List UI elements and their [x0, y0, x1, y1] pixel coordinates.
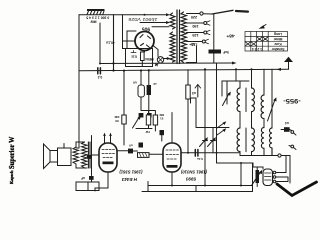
- resistor R1: [141, 52, 145, 61]
- wire vertical x113: [113, 15, 115, 71]
- svg-text:905: 905: [142, 25, 151, 31]
- svg-text:uF: uF: [153, 82, 157, 86]
- svg-text:5993: 5993: [185, 177, 196, 182]
- tube U1 anode lead: [153, 46, 158, 57]
- mains switch output: [236, 10, 248, 13]
- wire transformer bottom tap: [187, 46, 197, 63]
- tap 150 wire: [187, 22, 204, 24]
- transformer T1 core: [177, 10, 180, 64]
- wire main bus y70: [79, 69, 289, 70]
- bus arrow left: [277, 68, 282, 71]
- label u: [192, 91, 196, 95]
- tube V2 grids: [166, 150, 179, 159]
- label 5uF: [223, 50, 229, 54]
- wire vertical under switch: [99, 23, 101, 64]
- tube V1 top pins: [105, 135, 111, 143]
- svg-text:48+: 48+: [226, 32, 234, 38]
- capacitor C10 blob: [128, 149, 133, 154]
- contact K1: [291, 131, 294, 134]
- svg-text:u0: u0: [129, 144, 133, 148]
- svg-text:1 2 3 4 5: 1 2 3 4 5: [86, 16, 99, 20]
- svg-text:u4: u4: [285, 121, 289, 125]
- svg-text:ME64: ME64: [145, 57, 154, 61]
- mains switch lever: [212, 10, 233, 14]
- wire vertical x122: [123, 15, 126, 49]
- wire x196 down: [195, 186, 197, 192]
- label 0,1u: [106, 41, 115, 45]
- trimmer capacitor CT1: [212, 128, 214, 153]
- tap 150 contact: [204, 22, 207, 25]
- antenna riser: [288, 62, 290, 70]
- capacitor C11 blob small: [139, 143, 144, 148]
- resistor R2: [122, 115, 126, 124]
- mains switch wire: [204, 13, 213, 15]
- core line2: [245, 128, 247, 152]
- wire heater line y63: [100, 62, 233, 65]
- wire tube feed: [253, 163, 263, 169]
- tap 220 contact: [200, 12, 203, 15]
- capacitor C8 blob: [87, 155, 91, 159]
- svg-text:MW: MW: [90, 20, 97, 24]
- tube V2 envelope: [163, 143, 181, 172]
- blob caps row: [139, 113, 144, 118]
- coil L3: [237, 128, 240, 152]
- transformer T1 primary winding upper: [170, 13, 175, 29]
- tap 125 wire: [187, 32, 204, 34]
- wire arrow into primary: [166, 13, 170, 16]
- svg-text:Kurz: Kurz: [274, 42, 282, 46]
- output transformer T3 core: [88, 142, 90, 168]
- tube U1 cathode lead: [144, 51, 146, 53]
- transformer T1 secondary winding: [181, 12, 187, 62]
- svg-text:1b901 V026: 1b901 V026: [128, 17, 158, 22]
- label uF: [133, 81, 157, 87]
- variable resistor R8: [256, 170, 260, 183]
- antenna arrow: [284, 57, 293, 62]
- capacitor C2 block: [209, 50, 222, 54]
- tube U1 electrodes: [140, 35, 151, 48]
- contact K2: [291, 145, 294, 148]
- table wave switch grid: [245, 32, 288, 52]
- label E5993: [180, 170, 207, 182]
- wires speaker top: [64, 142, 87, 168]
- coil L7: [270, 128, 273, 156]
- wire drop x188: [187, 70, 189, 85]
- wire y190: [148, 182, 253, 186]
- wire 905 line: [152, 26, 169, 28]
- IF can T2 top wires: [227, 69, 252, 88]
- coil L4: [252, 128, 255, 152]
- label tube 905 type: [128, 17, 158, 31]
- resistor R7: [138, 153, 150, 158]
- caption Kapsch Superior W: [7, 136, 16, 184]
- svg-text:220: 220: [191, 15, 197, 19]
- table X marks row3: [245, 42, 256, 46]
- capacitor C7 blob: [284, 127, 290, 132]
- tap 110 wire: [187, 41, 203, 43]
- svg-text:Kapsch: Kapsch: [9, 170, 14, 184]
- wire y196: [142, 186, 253, 192]
- IF can box corner: [222, 69, 249, 96]
- wire drop x141: [140, 71, 142, 85]
- coil L6: [261, 128, 264, 149]
- svg-text:0,1u: 0,1u: [197, 157, 203, 161]
- tap 125 contact: [204, 31, 207, 34]
- wire link y112: [141, 97, 155, 115]
- svg-text:DM: DM: [159, 113, 164, 117]
- svg-text:5uF: 5uF: [223, 50, 229, 54]
- switch bank S1 contacts: [87, 11, 104, 15]
- core line: [245, 88, 247, 112]
- coil L1: [237, 88, 240, 112]
- svg-text:b1c: b1c: [131, 55, 137, 59]
- coil L2: [252, 88, 255, 112]
- rectifier V3 plates: [265, 173, 272, 180]
- label 220: [191, 15, 199, 46]
- svg-text:Mittel: Mittel: [274, 37, 283, 41]
- tube V1 grids: [102, 150, 115, 158]
- tube V2 bottom lead: [171, 172, 173, 186]
- output transformer T3 winding: [82, 142, 88, 168]
- bottom box: [76, 182, 99, 191]
- wire lamp arrow: [164, 58, 168, 60]
- wire x241 down: [240, 163, 242, 186]
- lamp LP1: [157, 57, 163, 63]
- wire x252: [252, 163, 254, 192]
- wire drop x205: [204, 70, 206, 186]
- label u0: [129, 144, 133, 148]
- tube U1 905 envelope: [135, 32, 154, 51]
- table X marks row2: [257, 37, 268, 41]
- svg-text:(1961 SN310): (1961 SN310): [180, 170, 207, 175]
- trimmer arrow left: [133, 118, 140, 129]
- table text: [252, 32, 285, 51]
- wire y152: [149, 153, 240, 155]
- tube U1 grid lead: [123, 40, 136, 42]
- speaker LS1 body: [50, 151, 58, 163]
- svg-text:H E443: H E443: [121, 177, 137, 182]
- svg-text:Superior W: Superior W: [7, 136, 16, 169]
- arrow above table: [261, 25, 266, 28]
- svg-text:150: 150: [192, 24, 198, 28]
- svg-text:-955-: -955-: [283, 97, 301, 103]
- svg-text:(1961 S361): (1961 S361): [119, 169, 143, 174]
- resistor R6 zigzag: [73, 147, 79, 164]
- svg-text:0 300: 0 300: [101, 16, 110, 20]
- label 955: [283, 97, 301, 103]
- wire drop x216: [216, 63, 218, 163]
- wire transformer to tube1: [92, 136, 100, 176]
- switch bank S1 bar: [87, 9, 105, 11]
- capacitor C6 blob: [160, 130, 165, 135]
- tap 110 contact: [202, 40, 205, 43]
- trimmer capacitor CT2: [208, 139, 215, 147]
- tube V1 bottom lead: [95, 172, 108, 191]
- tap 220 wire: [187, 13, 200, 15]
- svg-text:0,2: 0,2: [98, 75, 103, 79]
- svg-text:Lang: Lang: [274, 32, 282, 36]
- switch contacts left: [217, 123, 224, 128]
- svg-text:60: 60: [115, 119, 119, 123]
- junction dot: [240, 162, 242, 164]
- wire x264: [263, 69, 265, 155]
- svg-text:U0: U0: [133, 81, 137, 85]
- tube V2 top pins: [171, 113, 173, 144]
- resistor R5: [186, 85, 190, 99]
- label 0 300: [86, 16, 109, 24]
- label 48+: [226, 32, 234, 38]
- wire y163: [217, 162, 254, 164]
- speaker LS1 cone: [44, 144, 51, 169]
- label btc: [131, 55, 154, 61]
- capacitor C4 electrolytic: [138, 85, 144, 97]
- wire fuse vertical: [213, 14, 215, 50]
- IF trimmer2: [271, 95, 273, 120]
- svg-text:u3: u3: [192, 91, 196, 95]
- wire left long vertical: [76, 15, 79, 148]
- svg-text:uF: uF: [81, 176, 85, 180]
- capacitor C12 bars: [195, 150, 198, 157]
- svg-text:u8+: u8+: [189, 42, 195, 46]
- capacitor C5 block: [147, 85, 151, 95]
- contact K3: [278, 154, 281, 157]
- wire 905 box corner: [127, 31, 136, 49]
- rectifier V3 contacts: [273, 171, 276, 174]
- capacitor C1 mark: [131, 51, 136, 53]
- wire top bus: [79, 14, 166, 16]
- label 0,2: [98, 75, 103, 79]
- can1 inner wires: [240, 112, 252, 156]
- tube V1 envelope: [99, 143, 117, 172]
- svg-text:125: 125: [192, 33, 198, 37]
- svg-text:DM: DM: [114, 115, 119, 119]
- label E443H: [119, 169, 143, 182]
- resistor R4: [153, 115, 157, 125]
- check mark: [277, 182, 317, 196]
- svg-text:51: 51: [160, 117, 164, 121]
- clip component: [191, 98, 230, 128]
- wire y155: [240, 155, 278, 157]
- coil L5: [261, 95, 264, 119]
- svg-text:1 2 3 4: 1 2 3 4: [252, 47, 262, 51]
- wire below C2: [213, 54, 215, 64]
- resistor R3: [146, 115, 150, 125]
- label uF2: [81, 176, 85, 180]
- wire drop x124: [123, 71, 125, 145]
- capacitor C3 on bus: [98, 68, 101, 74]
- arrow component: [195, 85, 201, 89]
- label 0,1u: [197, 157, 203, 161]
- speaker box: [58, 148, 72, 166]
- svg-text:1W: 1W: [145, 130, 150, 134]
- lamp asterisk: [155, 64, 158, 67]
- capacitor C9 blob: [89, 176, 94, 180]
- label DM60: [114, 115, 119, 123]
- svg-text:+0,1u: +0,1u: [106, 41, 115, 45]
- IF can T2 trimmer: [226, 88, 228, 104]
- svg-text:Schalter: Schalter: [271, 47, 285, 51]
- rectifier V3 envelope: [263, 169, 273, 186]
- label DM51: [145, 113, 164, 134]
- tube V1 anode: [103, 162, 114, 165]
- box cathode network: [126, 49, 153, 67]
- label u4: [285, 121, 289, 125]
- tube V2 anode: [167, 165, 178, 168]
- label u8+: [189, 42, 195, 46]
- wire label-box lower: [140, 22, 166, 24]
- transformer T1 primary winding lower: [170, 32, 175, 62]
- wire drop x148: [148, 71, 150, 113]
